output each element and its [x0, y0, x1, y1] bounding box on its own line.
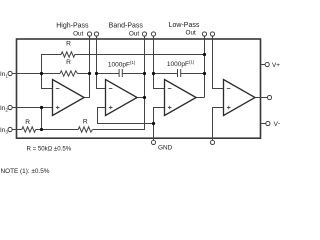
terminal V+ — [261, 62, 281, 69]
wire: HP rail 1 (A1 output to HP out pin) — [84, 36, 89, 98]
IC outline box — [17, 39, 261, 138]
wire: BP rail 1 (A2 output up to BP out pin) — [144, 36, 146, 98]
wire: top feedback row to LP rail — [76, 54, 205, 56]
capacitor C1 1000pF — [119, 69, 122, 77]
op-amp A1 — [53, 80, 85, 116]
svg-text:R: R — [25, 119, 30, 126]
svg-text:R = 50kΩ ±0.5%: R = 50kΩ ±0.5% — [27, 145, 72, 152]
svg-text:High-Pass: High-Pass — [56, 22, 89, 29]
wire: BP rail 2 (BP pin 2 down to A3 inverting input) — [154, 36, 165, 89]
wire: A4 output to output pin — [255, 97, 268, 99]
svg-text:Low-Pass: Low-Pass — [169, 22, 200, 29]
terminal LP Out pin 1 — [202, 32, 206, 39]
terminal V- — [261, 121, 282, 128]
junction: HP rail 1 / feedback R — [88, 72, 91, 75]
junction: LP rail / top row R — [203, 53, 206, 56]
svg-text:R: R — [66, 59, 71, 66]
junction: BP rail 2 / C2 — [152, 72, 155, 75]
svg-text:R: R — [66, 41, 71, 48]
wire: resistor to HP rail — [78, 73, 90, 75]
junction: In2 node — [40, 106, 43, 109]
op-amp A2 — [106, 80, 138, 116]
wire: A3 integrator cap right lead — [181, 73, 205, 75]
junction: HP rail 2 / C1 — [95, 72, 98, 75]
wire: LP rail 1 (A3 output up to LP out pin) — [204, 36, 206, 98]
junction: ground rail node — [152, 122, 155, 125]
terminal BP Out pin 2 — [151, 32, 155, 39]
resistor R (In3 row, second) — [78, 127, 92, 132]
capacitor C2 1000pF — [178, 69, 181, 77]
junction: In3 row node — [40, 128, 43, 131]
svg-text:R: R — [83, 119, 88, 126]
wire: A2 non-inverting input to ground rail — [98, 108, 154, 124]
wire: A3 output to LP rail — [196, 97, 204, 99]
wire: In1 row into summing node — [17, 73, 61, 75]
terminal In2 — [0, 105, 17, 112]
terminal A4 output — [267, 95, 271, 99]
wire: A2 integrator cap right lead — [122, 73, 144, 75]
junction: BP rail 1 / C1 — [143, 72, 146, 75]
wire: In3 row between resistors — [36, 129, 78, 131]
svg-text:Band-Pass: Band-Pass — [109, 22, 144, 29]
junction: A2 output node — [143, 96, 146, 99]
wire: In2 node down to In3 row — [41, 108, 43, 130]
terminal GND — [151, 140, 155, 144]
junction: summing node / In1 — [40, 72, 43, 75]
svg-text:V+: V+ — [272, 62, 280, 69]
svg-text:Out: Out — [129, 30, 140, 37]
terminal A4 + input pin — [210, 140, 214, 144]
terminal HP Out pin 1 — [87, 32, 91, 39]
wire: A3 integrator cap left lead — [154, 73, 178, 75]
wire: LP rail 2 (LP pin 2 down to A4 inverting input) — [213, 36, 224, 89]
svg-text:NOTE (1): ±0.5%: NOTE (1): ±0.5% — [1, 168, 50, 175]
svg-text:V−: V− — [274, 121, 280, 128]
wire: A4 non-inverting input to bottom pin — [213, 108, 224, 141]
wire: A2 output to BP rail — [137, 97, 144, 99]
terminal HP Out pin 2 — [94, 32, 98, 39]
terminal In1 — [0, 71, 17, 78]
wire: A3 non-inverting input to ground stem — [154, 108, 165, 141]
terminal BP Out pin 1 — [142, 32, 146, 39]
wire: BP rail down to In3 row — [93, 98, 145, 130]
wire: In3 row lead — [17, 129, 22, 131]
wire: In2 row to A1 non-inverting input — [17, 107, 53, 109]
terminal In3 — [0, 127, 17, 134]
resistor R (In1 row, HP feedback) — [60, 71, 78, 76]
junction: LP rail / C2 — [203, 72, 206, 75]
resistor R (top row, LP feedback) — [61, 52, 76, 57]
wire: HP rail 2 (HP pin 2 down to A2 inverting input) — [97, 36, 106, 89]
wire: top feedback row to A1 inverting input — [42, 55, 62, 89]
wire: A2 integrator cap left lead — [97, 73, 120, 75]
terminal LP Out pin 2 — [210, 32, 214, 39]
op-amp A4 — [224, 80, 256, 116]
svg-text:Out: Out — [73, 30, 84, 37]
svg-text:Out: Out — [185, 30, 196, 37]
svg-text:GND: GND — [158, 145, 173, 152]
resistor R (In3 row, first) — [22, 127, 36, 132]
op-amp A3 — [165, 80, 197, 116]
